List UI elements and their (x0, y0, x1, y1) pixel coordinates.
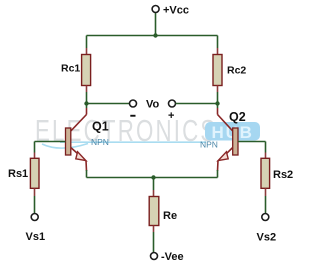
junction node B (right Vo) (215, 101, 219, 105)
wire Rs1 to Vs1 (34, 196, 36, 213)
svg-text:-Vee: -Vee (161, 251, 184, 263)
svg-text:NPN: NPN (91, 137, 109, 147)
wire rail to Re (153, 178, 155, 191)
svg-text:Vs1: Vs1 (26, 231, 46, 243)
junction node A (left Vo) (84, 101, 88, 105)
svg-text:Rc1: Rc1 (61, 63, 80, 75)
junction bottom rail / Re (151, 175, 155, 179)
resistor Rc2 (213, 55, 222, 86)
wire Q1 base (35, 141, 66, 143)
pin Rs1 bottom (34, 188, 36, 196)
wire top rail (87, 35, 218, 37)
pin Rc2 bottom (217, 86, 219, 93)
wire node B to Q2 collector (217, 104, 219, 109)
pin Rc2 top (217, 48, 219, 55)
terminal Vs1 (31, 214, 38, 221)
wire Rc2 to node B (217, 92, 219, 104)
wire +Vcc stem (155, 13, 157, 36)
wire rail to Rc1 (86, 36, 88, 49)
junction Vcc / top rail (153, 33, 157, 37)
transistor Q2 (218, 115, 239, 172)
terminal -Vee (151, 253, 158, 260)
svg-text:Rs2: Rs2 (273, 169, 293, 181)
wire Re to -Vee (153, 232, 155, 252)
resistor Rc1 (82, 55, 91, 86)
terminal Vo minus (130, 100, 137, 107)
wire Q2 emitter down (217, 170, 219, 178)
resistor Re (149, 197, 159, 226)
svg-text:Rc2: Rc2 (227, 65, 246, 77)
svg-text:Rs1: Rs1 (8, 168, 28, 180)
svg-text:Q2: Q2 (229, 110, 246, 124)
pin Rc1 bottom (86, 86, 88, 93)
wire Rs2 to Vs2 (265, 196, 267, 213)
pin Re top (153, 190, 155, 197)
wire Vo rail left (87, 103, 130, 105)
wire rail to Rc2 (217, 36, 219, 49)
terminal +Vcc (152, 6, 159, 13)
terminal Vs2 (262, 214, 269, 221)
label minus (130, 115, 135, 117)
svg-text:Vo: Vo (146, 99, 160, 111)
watermark swoosh (42, 142, 206, 148)
resistor Rs2 (261, 158, 270, 188)
pin Rs2 bottom (265, 188, 267, 196)
transistor Q1 (66, 115, 87, 172)
wire base to Rs1 (34, 142, 36, 153)
svg-text:Q1: Q1 (92, 120, 109, 134)
pin Rc1 top (86, 48, 88, 55)
terminal Vo plus (169, 100, 176, 107)
wire Q1 emitter down (86, 170, 88, 178)
svg-text:Re: Re (163, 210, 177, 222)
svg-text:+: + (168, 110, 174, 122)
resistor Rs1 (30, 158, 39, 188)
watermark HUB badge (205, 122, 260, 141)
svg-text:+Vcc: +Vcc (163, 5, 189, 17)
wire bottom rail (87, 177, 218, 179)
wire base to Rs2 (265, 142, 267, 153)
pin Re bottom (153, 226, 155, 233)
svg-text:Vs2: Vs2 (257, 232, 277, 244)
wire Q2 base (238, 141, 266, 143)
wire node A to Q1 collector (86, 104, 88, 109)
wire Rc1 to node A (86, 92, 88, 104)
svg-text:NPN: NPN (200, 140, 218, 150)
wire Vo rail right (176, 103, 218, 105)
